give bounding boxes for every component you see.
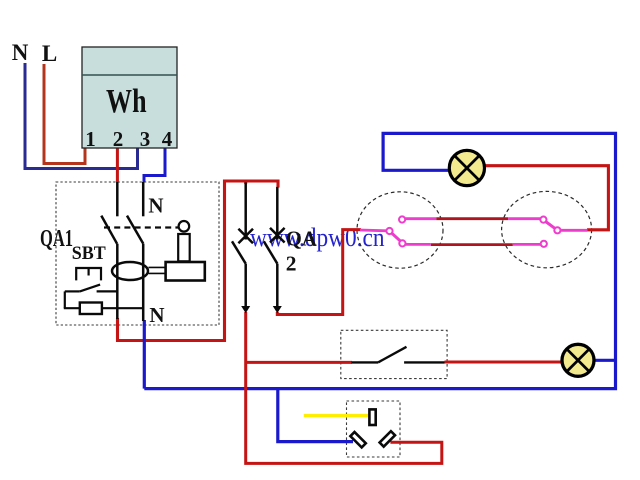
SBT left drop wire	[64, 291, 66, 308]
lamp EL1	[449, 150, 484, 185]
SBT contact blade	[80, 285, 100, 292]
svg-text:Wh: Wh	[106, 83, 147, 120]
socket X dashed enclosure	[347, 401, 401, 457]
svg-text:QA1: QA1	[40, 226, 73, 252]
wire QA1 N out to bottom neutral bus (blue)	[143, 320, 146, 389]
svg-text:L: L	[42, 41, 57, 66]
switch S dashed enclosure	[341, 330, 447, 378]
svg-text:www.dpw0.cn: www.dpw0.cn	[250, 223, 385, 252]
breaker QA1 N pole upper	[142, 182, 145, 216]
breaker QA1 L pole lower	[116, 244, 119, 319]
lamp EL2	[562, 344, 594, 376]
test resistor leads	[64, 307, 80, 309]
breaker QA1 L blade	[101, 216, 117, 244]
breaker QA2 L pole upper	[244, 183, 247, 240]
QA1 dashed enclosure	[56, 182, 219, 325]
switch SA1 blade (pink)	[392, 233, 401, 241]
breaker QA1 N pole lower	[142, 244, 145, 321]
SBT test button actuator	[76, 268, 101, 280]
switch SA1 contact circles	[386, 228, 392, 234]
svg-text:3: 3	[140, 127, 151, 151]
wire traveller 1 (dark red)	[436, 217, 508, 220]
wire QA1 L out to QA2 top bar (red)	[118, 181, 279, 341]
svg-text:N: N	[12, 40, 29, 65]
breaker QA2 left blade	[232, 241, 246, 263]
socket left pin	[350, 432, 365, 447]
breaker QA2 right X mark	[270, 228, 285, 243]
SBT contact left lead	[65, 290, 80, 292]
test resistor R	[80, 303, 102, 315]
wire meter terminal 2 to QA1 (red)	[116, 148, 119, 182]
wire traveller 2 (dark red)	[431, 243, 513, 246]
switch SA2 contact circles	[540, 217, 546, 223]
wire PE yellow to socket earth pin	[304, 414, 369, 417]
breaker QA2 right lower + arrow	[276, 264, 279, 307]
wire QA2 left pole down to bottom, to socket right pin (red)	[246, 312, 442, 463]
wire lamp EL1 to switch SA2 common (red)	[485, 166, 609, 230]
svg-text:1: 1	[85, 127, 96, 151]
svg-text:N: N	[148, 194, 163, 218]
switch SA1 dashed circle	[357, 192, 443, 268]
QA1 toroid to relay link (double line)	[149, 266, 167, 268]
svg-text:N: N	[149, 303, 164, 327]
svg-text:QA: QA	[286, 226, 318, 250]
QA1 trip plunger	[178, 234, 190, 261]
switch SA2 blade (pink)	[546, 222, 556, 229]
wire meter terminal 4 to QA1 N pole (blue)	[144, 148, 165, 182]
wire QA2 right pole to switch SA1 common (red)	[277, 230, 361, 315]
svg-text:SBT: SBT	[72, 243, 106, 264]
svg-text:4: 4	[162, 127, 173, 151]
svg-text:2: 2	[286, 251, 297, 275]
wire neutral bus and lamp loop (blue)	[144, 133, 615, 388]
meter Wh box	[82, 47, 177, 148]
switch SA1 traveller stubs (pink)	[405, 217, 436, 220]
switch S lever (black)	[352, 361, 379, 363]
switch SA2 dashed circle	[502, 191, 592, 267]
switch SA2 common out (pink)	[560, 229, 587, 232]
breaker QA1 L pole upper	[116, 182, 119, 216]
wire lamp EL2 to neutral riser (blue)	[595, 359, 616, 362]
breaker QA2 right blade	[264, 241, 278, 263]
breaker QA1 trip linkage dashed	[104, 226, 180, 228]
wire N incoming (navy)	[25, 63, 138, 169]
socket right pin	[380, 431, 395, 446]
wire QA2 left pole branch to switch S (red)	[246, 361, 352, 364]
QA1 trip button circle	[179, 221, 190, 232]
breaker QA1 N blade	[127, 216, 143, 244]
breaker QA2 red stubs	[244, 181, 247, 184]
wire switch S to lamp EL2 (red)	[445, 361, 562, 364]
QA1 trip relay box	[166, 262, 205, 281]
svg-text:2: 2	[113, 127, 124, 151]
SBT actuator stem	[87, 268, 89, 276]
breaker QA2 left X mark	[238, 229, 253, 244]
wire neutral bus branch to socket left pin (blue)	[278, 389, 353, 442]
SBT contact right lead to L pole	[97, 290, 118, 292]
breaker QA2 N pole upper	[276, 187, 279, 240]
QA1 toroid current transformer	[112, 262, 148, 280]
switch SA2 traveller stubs (pink)	[508, 217, 540, 220]
breaker QA2 left lower + arrow	[244, 264, 247, 307]
switch SA1 feed (pink)	[360, 229, 386, 233]
socket earth pin	[369, 409, 375, 425]
wire L incoming (brick red)	[44, 64, 85, 164]
